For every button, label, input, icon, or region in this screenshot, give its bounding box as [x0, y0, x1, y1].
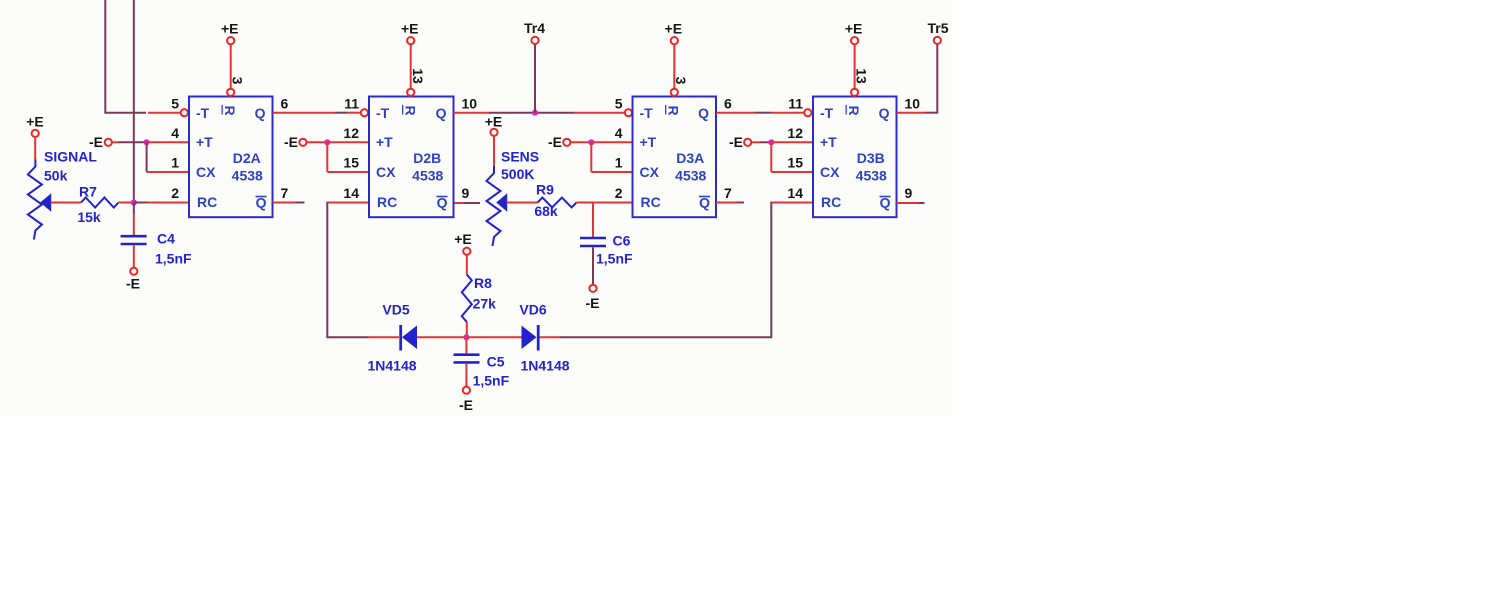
D3B pin 11 label: [788, 96, 803, 112]
wire: junction down and to D3B CX (pin 15): [771, 142, 813, 172]
label VD5: [382, 302, 409, 318]
svg-text:RC: RC: [377, 194, 397, 210]
power -E (D3B +T feed): [729, 134, 751, 150]
svg-text:+E: +E: [26, 114, 44, 130]
wire: D2B RC (pin 14) feed from diode row: [327, 202, 369, 338]
wire: VD6 to D3B RC riser: [540, 336, 773, 338]
svg-text:SIGNAL: SIGNAL: [44, 149, 97, 165]
D2A pin 1 label: [171, 155, 179, 171]
svg-text:Q: Q: [879, 105, 890, 121]
svg-text:-E: -E: [126, 276, 140, 292]
svg-text:C6: C6: [613, 233, 631, 249]
label R8: [474, 275, 492, 291]
D2B pin 14 label: [343, 185, 359, 201]
svg-text:12: 12: [787, 125, 803, 141]
potentiometer SENS 500K: [487, 166, 507, 246]
svg-text:4538: 4538: [412, 168, 443, 184]
wire: R7 to C4/RC junction: [119, 202, 134, 204]
power +E (D3B pin 13 reset): [845, 21, 863, 96]
diode VD5 1N4148: [401, 325, 417, 351]
D2B pin 15 label: [343, 155, 359, 171]
capacitor C5 1,5nF: [454, 355, 480, 363]
svg-text:5: 5: [615, 96, 623, 112]
wire: vertical bus from top edge to D2A -T (pin 5): [104, 0, 180, 113]
wire: junction down to C4: [133, 203, 135, 235]
label 50k: [44, 168, 68, 184]
svg-text:27k: 27k: [473, 296, 497, 312]
label C5 value 1,5nF: [473, 373, 510, 389]
label 15k: [77, 209, 101, 225]
power -E (below C6): [586, 285, 600, 311]
label C4 value 1,5nF: [155, 251, 192, 267]
svg-text:1: 1: [171, 155, 179, 171]
svg-text:VD5: VD5: [382, 302, 409, 318]
label C4: [157, 231, 175, 247]
power +E (SIGNAL pot top): [26, 114, 44, 160]
svg-text:-T: -T: [376, 105, 390, 121]
svg-text:+E: +E: [485, 114, 503, 130]
wire: D2A Q (pin 6) to D2B -T (pin 11): [273, 112, 361, 114]
wire: junction down and to D2B CX (pin 15): [327, 142, 369, 172]
svg-text:9: 9: [462, 185, 470, 201]
D3A pin 4 label: [615, 125, 623, 141]
svg-text:-E: -E: [548, 134, 562, 150]
junction: Tr4 tap on Q10 net: [532, 110, 538, 116]
svg-text:+E: +E: [665, 21, 683, 37]
D3B pin 14 label: [787, 185, 803, 201]
svg-text:2: 2: [615, 185, 623, 201]
D3B pin 12 label: [787, 125, 803, 141]
svg-text:R: R: [846, 105, 862, 115]
D2A pin 2 label: [171, 185, 179, 201]
svg-text:RC: RC: [197, 194, 217, 210]
D2A pin 7 label: [281, 185, 289, 201]
svg-text:13: 13: [853, 68, 869, 84]
junction: D3B +T / CX node: [768, 139, 774, 145]
label 68k: [534, 203, 558, 219]
wire: junction to D3A +T (pin 4): [591, 141, 632, 143]
svg-text:2: 2: [171, 185, 179, 201]
svg-text:68k: 68k: [534, 203, 558, 219]
wire: junction to D2B +T (pin 12): [327, 141, 369, 143]
svg-text:15k: 15k: [77, 209, 101, 225]
wire: diode row horizontal (D2B pin14 side): [326, 336, 399, 338]
svg-text:D2A: D2A: [233, 150, 261, 166]
svg-text:D3A: D3A: [676, 150, 704, 166]
svg-text:7: 7: [281, 185, 289, 201]
D3A pin 3 label (rotated): [673, 77, 689, 85]
label SIGNAL: [44, 149, 97, 165]
svg-text:-E: -E: [729, 134, 743, 150]
svg-text:+E: +E: [401, 21, 419, 37]
svg-text:CX: CX: [820, 164, 840, 180]
wire: junction down and to D3A CX (pin 1): [591, 142, 632, 172]
IC D3B (4538) body: [813, 97, 897, 218]
svg-text:15: 15: [787, 155, 803, 171]
svg-text:CX: CX: [640, 164, 660, 180]
svg-text:1N4148: 1N4148: [367, 358, 416, 374]
capacitor C6 1,5nF: [580, 238, 606, 246]
svg-text:RC: RC: [821, 194, 841, 210]
label VD6: [519, 302, 546, 318]
IC D2A (4538) body: [189, 97, 273, 218]
svg-text:R: R: [665, 105, 681, 115]
svg-text:D3B: D3B: [857, 150, 885, 166]
D2A pin 3 label (rotated): [229, 77, 245, 85]
wire: SIGNAL wiper to R7: [51, 202, 81, 204]
svg-text:1: 1: [615, 155, 623, 171]
svg-text:15: 15: [343, 155, 359, 171]
wire: D3A Q (pin 6) to D3B -T (pin 11): [716, 112, 804, 114]
svg-text:Tr4: Tr4: [524, 20, 545, 36]
node: open terminal at D3A pin 5: [625, 109, 632, 116]
D2B pin 9 label: [462, 185, 470, 201]
wire: vertical bus from top edge to R7/C4 junction: [133, 0, 135, 203]
svg-text:Q: Q: [255, 105, 266, 121]
svg-text:D2B: D2B: [413, 150, 441, 166]
IC D3A (4538) body: [633, 97, 717, 218]
svg-text:+E: +E: [454, 231, 472, 247]
svg-text:CX: CX: [196, 164, 216, 180]
power +E (D3A pin 3 reset): [665, 21, 683, 96]
svg-text:1,5nF: 1,5nF: [473, 373, 510, 389]
node: open terminal at D3B pin 11: [804, 109, 811, 116]
wire: junction down to C5: [465, 337, 467, 353]
svg-text:-T: -T: [196, 105, 210, 121]
D2B pin 11 label: [344, 96, 359, 112]
label 500K: [501, 166, 534, 182]
power +E (SENS pot top): [485, 114, 503, 167]
D2A pin 6 label: [281, 96, 289, 112]
wire: D3A Qbar (pin 7) stub: [716, 202, 744, 204]
svg-text:Q: Q: [698, 105, 709, 121]
svg-text:4538: 4538: [675, 168, 706, 184]
svg-text:4: 4: [171, 125, 179, 141]
wire: D2A Qbar (pin 7) stub: [273, 202, 305, 204]
svg-text:-E: -E: [284, 134, 298, 150]
wire: C6 to -E terminal: [592, 247, 594, 284]
svg-text:Q: Q: [436, 105, 447, 121]
wire: Tr4 terminal down to Q10 net: [534, 44, 536, 112]
wire: junction to D3B +T (pin 12): [771, 141, 813, 143]
D3A pin 1 label: [615, 155, 623, 171]
svg-text:-E: -E: [459, 397, 473, 413]
junction: R7 / C4 / D2A RC node: [131, 199, 137, 205]
svg-text:-T: -T: [820, 105, 834, 121]
svg-text:13: 13: [410, 68, 426, 84]
wire: C5 to -E terminal: [465, 364, 467, 387]
wire: D2B Qbar (pin 9) stub: [455, 202, 481, 204]
wire: -E terminal to D2A +T junction: [112, 141, 147, 143]
D3A pin 5 label: [615, 96, 623, 112]
power -E (below C5): [459, 387, 473, 413]
label VD5 value 1N4148: [367, 358, 416, 374]
svg-text:6: 6: [281, 96, 289, 112]
svg-text:C5: C5: [487, 354, 505, 370]
label C6: [613, 233, 631, 249]
wire: RC node down to C6: [592, 203, 594, 238]
D3A pin 7 label: [724, 185, 732, 201]
svg-text:12: 12: [343, 125, 359, 141]
junction: D3A +T / CX node: [588, 139, 594, 145]
label SENS: [501, 149, 539, 165]
svg-text:5: 5: [171, 96, 179, 112]
wire: junction down and to D2A CX (pin 1): [147, 142, 189, 172]
label C5: [487, 354, 505, 370]
D3B pin 13 label (rotated): [853, 68, 869, 84]
wire: SENS wiper to R9: [507, 202, 538, 204]
svg-text:1N4148: 1N4148: [520, 358, 569, 374]
wire: D2B Q (pin 10) to D3A -T (pin 5): [454, 112, 625, 114]
D3B pin 10 label: [905, 96, 921, 112]
IC D2B (4538) body: [369, 97, 454, 218]
junction: R8 / C5 / VD5 / VD6 node: [463, 334, 469, 340]
svg-text:10: 10: [462, 96, 478, 112]
power -E (D3A +T feed): [548, 134, 570, 150]
svg-text:4: 4: [615, 125, 623, 141]
D2B pin 10 label: [462, 96, 478, 112]
wire: C4 to -E terminal: [133, 245, 135, 267]
svg-text:-E: -E: [586, 295, 600, 311]
node Tr4 output terminal: [524, 20, 545, 44]
svg-text:R8: R8: [474, 275, 492, 291]
power -E (below C4): [126, 268, 140, 292]
svg-text:R: R: [402, 105, 418, 115]
node: open terminal at D2B pin 11: [361, 109, 368, 116]
svg-text:4538: 4538: [856, 168, 887, 184]
svg-text:9: 9: [905, 185, 913, 201]
power -E (D2B +T feed): [284, 134, 307, 150]
D2B pin 12 label: [343, 125, 359, 141]
svg-text:10: 10: [905, 96, 921, 112]
svg-text:R: R: [222, 105, 238, 115]
svg-text:6: 6: [724, 96, 732, 112]
power +E (R8 top): [454, 231, 472, 275]
wire: -E terminal to D3A +T junction: [571, 141, 592, 143]
wire: R8 to junction: [466, 322, 468, 337]
svg-text:CX: CX: [376, 164, 396, 180]
power -E (D2A +T feed): [89, 134, 112, 150]
svg-text:+T: +T: [640, 134, 657, 150]
svg-text:+T: +T: [376, 134, 393, 150]
svg-text:SENS: SENS: [501, 149, 539, 165]
svg-text:-E: -E: [89, 134, 103, 150]
D3A pin 2 label: [615, 185, 623, 201]
wire: junction to VD6 cathode: [466, 336, 521, 338]
svg-text:14: 14: [343, 185, 359, 201]
power +E (D2A pin 3 reset): [221, 21, 239, 96]
wire: -E terminal to D2B +T junction: [307, 141, 328, 143]
label 27k: [473, 296, 497, 312]
svg-text:RC: RC: [641, 194, 661, 210]
power +E (D2B pin 13 reset): [401, 21, 419, 96]
svg-text:500K: 500K: [501, 166, 534, 182]
svg-text:7: 7: [724, 185, 732, 201]
node: open terminal at D2A pin 5: [181, 109, 188, 116]
svg-text:1,5nF: 1,5nF: [155, 251, 192, 267]
svg-text:11: 11: [788, 96, 803, 112]
junction: D2A +T / CX node: [144, 139, 150, 145]
D2A pin 5 label: [171, 96, 179, 112]
wire: VD5 anode to R8/C5 junction: [417, 336, 466, 338]
svg-text:+T: +T: [820, 134, 837, 150]
wire: junction to D2A +T (pin 4): [147, 141, 189, 143]
D2B pin 13 label (rotated): [410, 68, 426, 84]
wire: junction to D2A RC (pin 2): [134, 202, 189, 204]
potentiometer SIGNAL 50k: [28, 160, 51, 240]
svg-text:14: 14: [787, 185, 803, 201]
svg-text:C4: C4: [157, 231, 175, 247]
resistor R9 68k: [538, 198, 577, 208]
D2A pin 4 label: [171, 125, 179, 141]
resistor R7 15k: [81, 198, 119, 208]
svg-text:4538: 4538: [232, 168, 263, 184]
svg-text:1,5nF: 1,5nF: [596, 251, 633, 267]
svg-text:R9: R9: [536, 182, 554, 198]
svg-text:+E: +E: [221, 21, 239, 37]
label R7: [79, 184, 97, 200]
resistor R8 27k: [462, 275, 472, 323]
label VD6 value 1N4148: [520, 358, 569, 374]
svg-text:R7: R7: [79, 184, 97, 200]
junction: D2B +T / CX node: [324, 139, 330, 145]
D3A pin 6 label: [724, 96, 732, 112]
svg-text:50k: 50k: [44, 168, 68, 184]
wire: -E terminal to D3B +T junction: [752, 141, 772, 143]
wire: R9 to D3A RC (pin 2): [577, 202, 633, 204]
D3B pin 15 label: [787, 155, 803, 171]
svg-text:+T: +T: [196, 134, 213, 150]
svg-text:Tr5: Tr5: [927, 20, 948, 36]
wire: D3B RC (pin 14) feed from diode row: [771, 202, 813, 338]
node Tr5 output terminal: [927, 20, 948, 44]
svg-text:-T: -T: [640, 105, 654, 121]
label C6 value 1,5nF: [596, 251, 633, 267]
wire: D3B Q (pin 10) to Tr5: [897, 44, 938, 113]
svg-text:11: 11: [344, 96, 359, 112]
D3B pin 9 label: [905, 185, 913, 201]
svg-text:+E: +E: [845, 21, 863, 37]
label R9: [536, 182, 554, 198]
svg-text:VD6: VD6: [519, 302, 546, 318]
wire: D3B Qbar (pin 9) stub: [897, 202, 925, 204]
capacitor C4 1,5nF: [121, 236, 147, 244]
diode VD6 1N4148: [522, 325, 539, 351]
